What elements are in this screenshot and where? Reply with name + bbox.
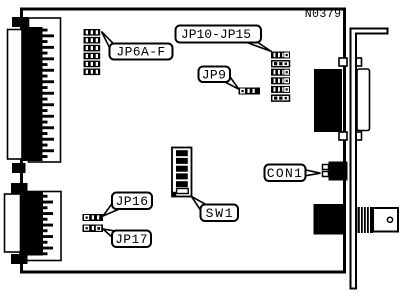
callout label JP16: [112, 193, 152, 210]
bracket DB connector screw tab bottom-right: [355, 132, 362, 140]
svg-text:SW1: SW1: [206, 206, 235, 221]
connector P2 shell: [5, 194, 21, 252]
callout label JP10-JP15: [176, 26, 262, 43]
board outline right edge: [343, 8, 346, 274]
callout tail JP17: [103, 229, 118, 238]
bracket DB connector screw tab bottom-left: [339, 132, 347, 140]
BNC knurled nut: [358, 207, 374, 233]
DIP switch SW1: [172, 148, 192, 197]
connector CON1 pin 2: [323, 172, 329, 177]
connector P1 pins: [42, 29, 54, 158]
callout tail JP9: [225, 78, 239, 90]
connector P2 footprint outline: [20, 192, 61, 261]
connector P1 shell: [8, 30, 23, 160]
connector P2 bottom mounting tab: [11, 254, 28, 264]
BNC center hole: [387, 217, 392, 222]
board outline bottom edge: [20, 271, 346, 274]
BNC connector base: [314, 204, 347, 235]
connector CON1 body: [329, 162, 348, 181]
svg-text:JP17: JP17: [115, 232, 148, 247]
svg-text:N0379: N0379: [305, 8, 342, 21]
jumper JP9: [239, 88, 261, 95]
bracket DB connector body: [314, 69, 342, 132]
svg-text:JP16: JP16: [116, 194, 149, 209]
callout tail JP16: [103, 203, 119, 216]
callout label CON1: [265, 165, 306, 182]
connector CON1 pin 1: [323, 165, 329, 170]
svg-text:JP6A-F: JP6A-F: [116, 45, 165, 60]
bracket DB connector screw tab top-right: [355, 58, 362, 66]
callout tail CON1: [305, 170, 321, 176]
callout tail JP10-JP15: [244, 40, 272, 52]
board outline left edge: [20, 8, 23, 274]
bracket DB connector screw tab top-left: [339, 58, 347, 66]
callout tail JP6A-F: [102, 32, 114, 48]
connector P1 top mounting tab: [12, 17, 28, 27]
jumper block JP6A-F: [84, 29, 101, 75]
jumper JP17: [83, 225, 104, 233]
mounting bracket strip: [350, 28, 389, 290]
jumper block JP10-JP15: [271, 52, 290, 102]
bracket DB connector shell: [357, 69, 370, 131]
BNC barrel: [373, 208, 398, 232]
connector P2 top mounting tab: [11, 183, 28, 194]
svg-text:JP9: JP9: [202, 68, 227, 83]
svg-text:CON1: CON1: [267, 166, 303, 181]
svg-text:JP10-JP15: JP10-JP15: [181, 27, 251, 42]
callout label SW1: [201, 205, 239, 222]
board outline top edge: [20, 8, 346, 11]
callout label JP17: [112, 231, 151, 248]
connector P2 body: [21, 192, 44, 256]
callout label JP9: [199, 67, 231, 83]
jumper JP16: [83, 214, 104, 221]
callout label JP6A-F: [110, 44, 173, 60]
callout tail SW1: [192, 197, 207, 211]
connector P1 body: [22, 27, 43, 161]
connector P1 footprint outline: [29, 18, 61, 162]
connector P1 bottom mounting tab: [12, 163, 26, 173]
connector P2 pins: [43, 195, 54, 255]
